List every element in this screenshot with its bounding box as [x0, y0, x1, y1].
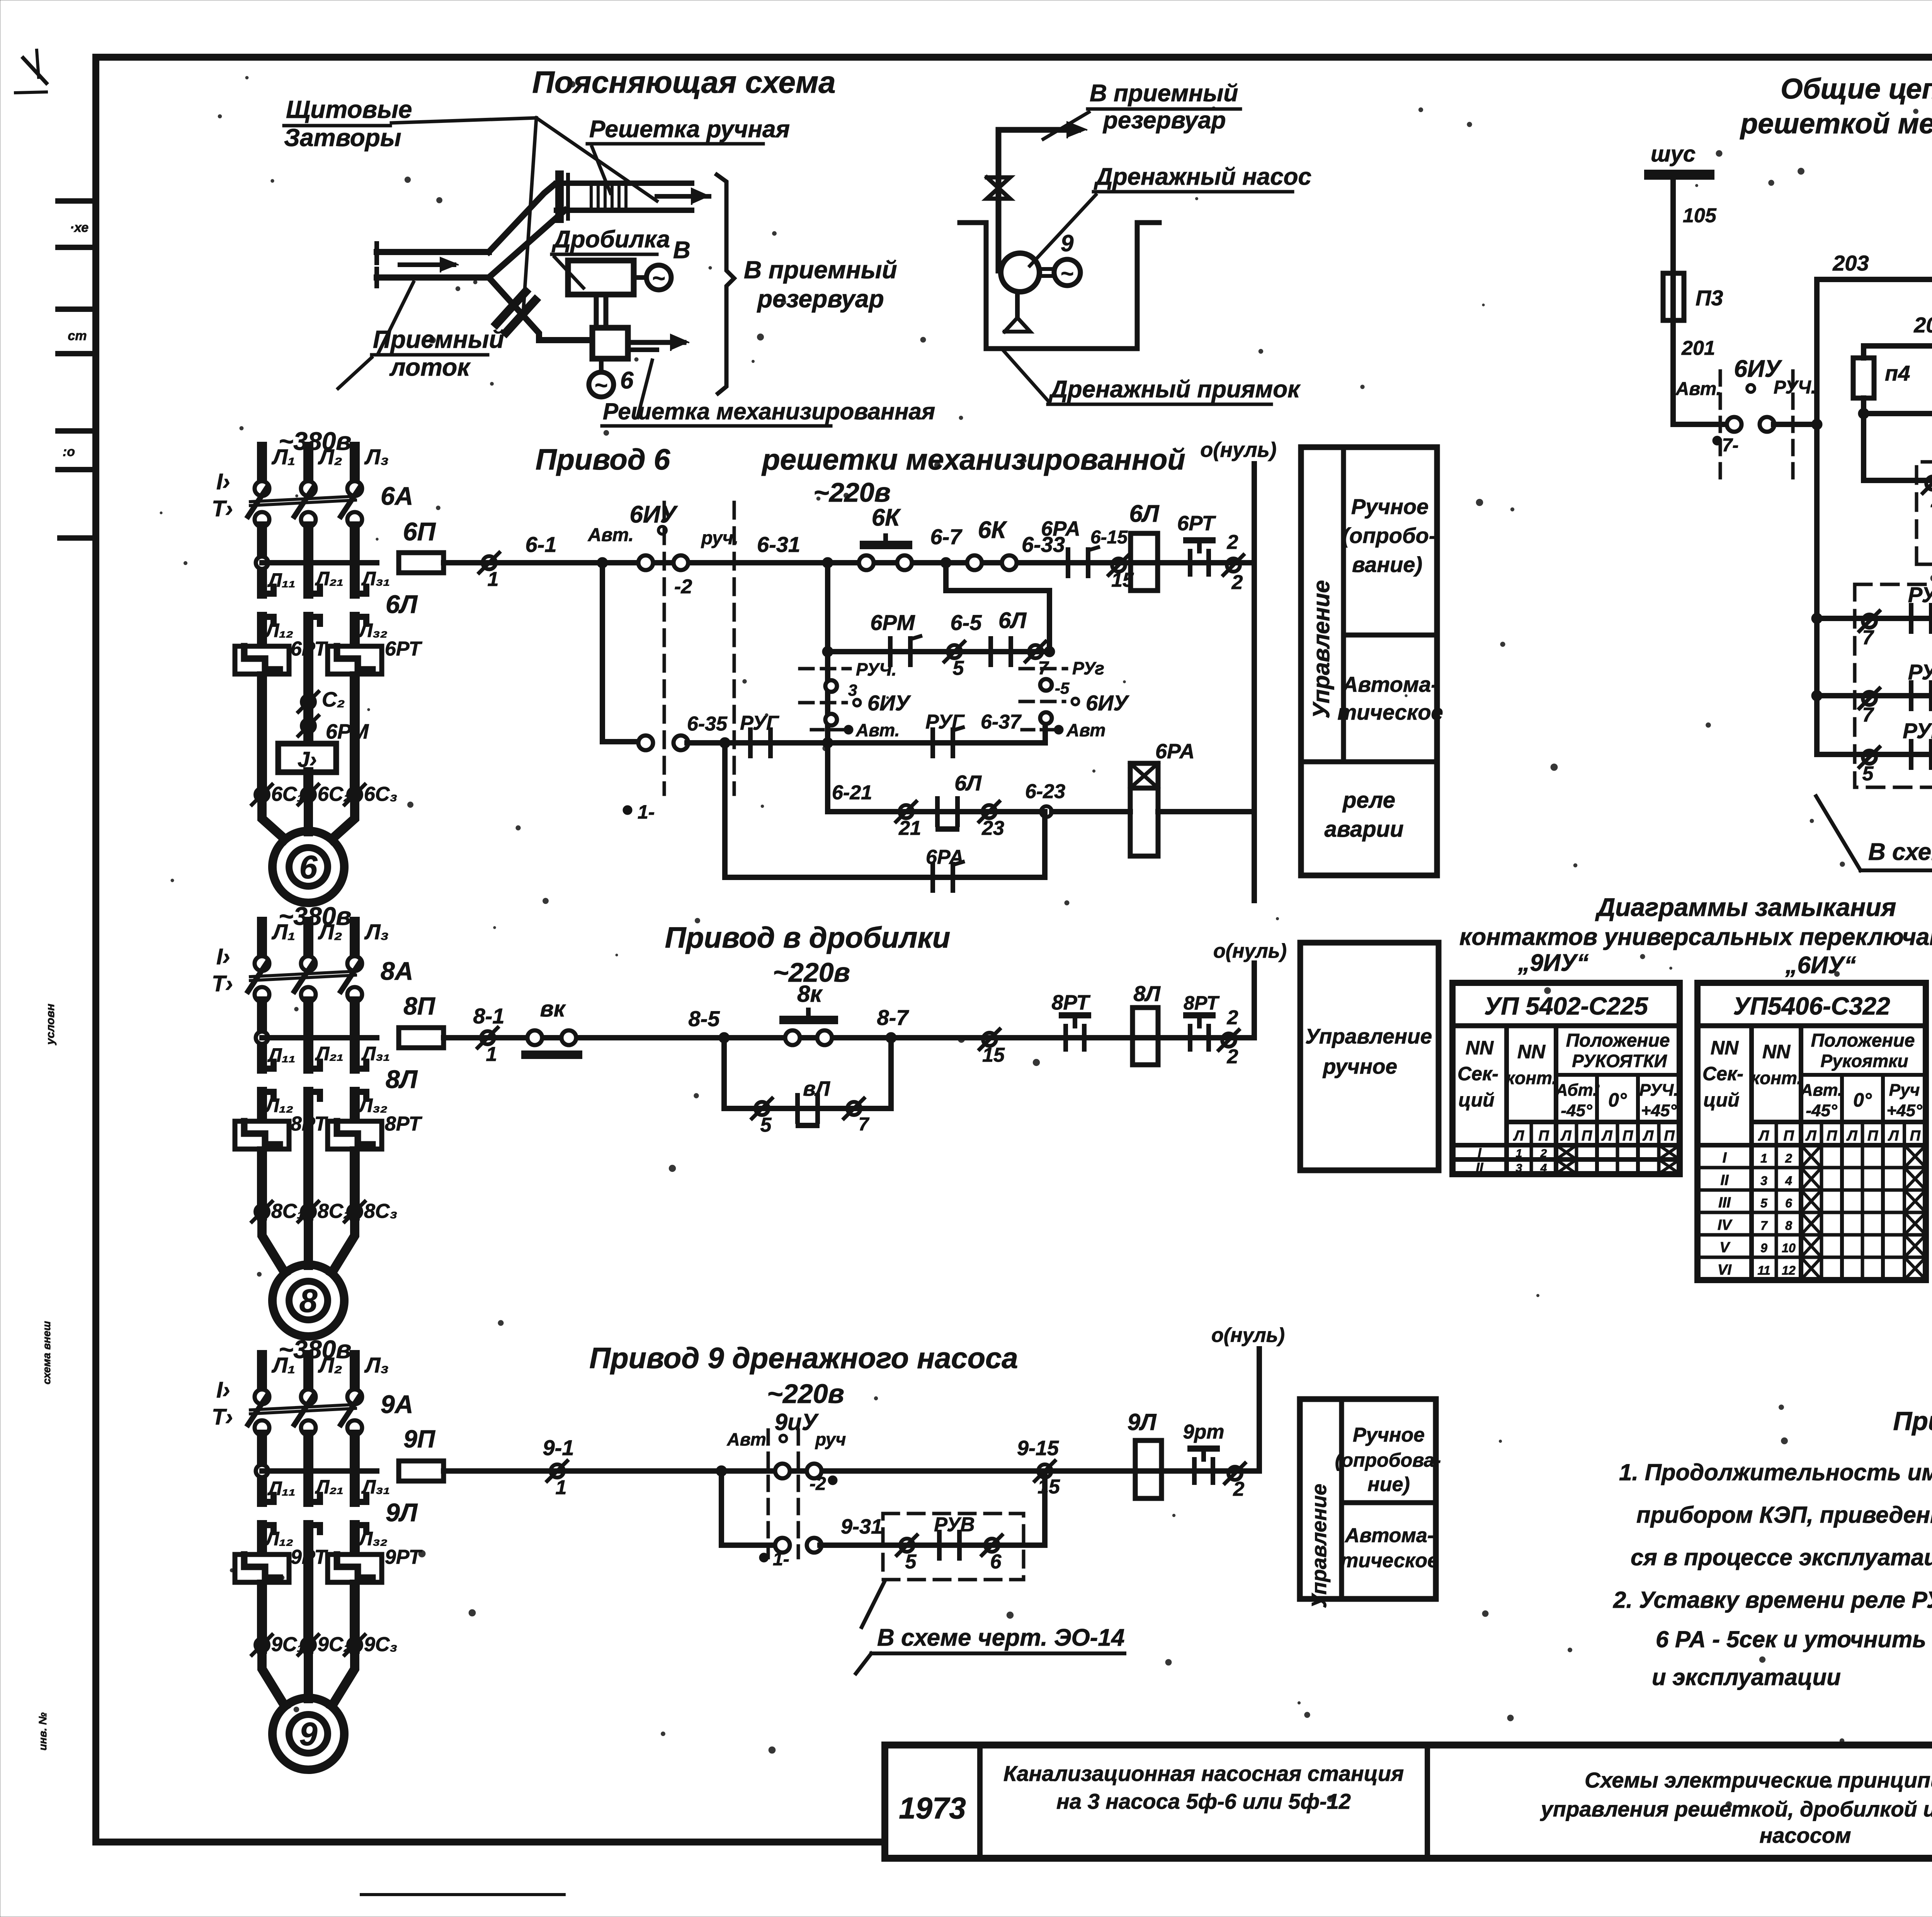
svg-text:вЛ: вЛ [803, 1077, 831, 1100]
contact 6РТ on line 6 [1188, 551, 1192, 574]
svg-text:~: ~ [1061, 261, 1074, 286]
svg-text:6-23: 6-23 [1025, 780, 1065, 803]
svg-text:205: 205 [1913, 313, 1932, 337]
contact 8РТ second [1188, 1026, 1192, 1049]
svg-text:тическое: тическое [1340, 1549, 1439, 1572]
thermal elements 6РТ [235, 646, 289, 674]
wire mark 2 [1227, 558, 1240, 572]
svg-text:6-35: 6-35 [687, 713, 728, 735]
breaker 6А [255, 481, 269, 496]
svg-text:П: П [1582, 1128, 1592, 1144]
Л/П letters row 5406 [1775, 1122, 1778, 1280]
svg-text:9С₃: 9С₃ [364, 1633, 398, 1656]
svg-text:8-7: 8-7 [877, 1005, 910, 1030]
svg-text:6-7: 6-7 [930, 524, 963, 549]
pipe to mech rack [514, 305, 591, 340]
svg-text:Л₁₂: Л₁₂ [265, 1528, 293, 1549]
svg-text:9: 9 [1760, 1241, 1767, 1255]
svg-text:Управление: Управление [1305, 1024, 1432, 1048]
svg-text:управления решеткой, дробилкой: управления решеткой, дробилкой и дренажн… [1540, 1797, 1932, 1821]
РУ relays dashed box [1855, 584, 1932, 787]
svg-text:Л: Л [1642, 1128, 1654, 1144]
svg-text:-2: -2 [810, 1474, 826, 1494]
wire mark 23 [983, 805, 996, 818]
auto branch 9 [721, 1471, 777, 1545]
svg-text:1: 1 [1760, 1151, 1767, 1165]
svg-text:6С₃: 6С₃ [364, 783, 398, 805]
svg-text:6-15: 6-15 [1090, 527, 1128, 548]
svg-text:о(нуль): о(нуль) [1211, 1324, 1285, 1347]
null bus feeder 9 [1257, 1349, 1262, 1471]
svg-text:7: 7 [859, 1114, 870, 1135]
node x1876 [719, 737, 730, 748]
contact 6РА on line 6 [1066, 550, 1070, 576]
Л/П letters row [1530, 1122, 1533, 1174]
svg-text:NN: NN [1517, 1041, 1546, 1062]
svg-text:9рт: 9рт [1183, 1421, 1225, 1443]
mode box feeder 9 [1300, 1399, 1436, 1599]
svg-text:Л₁: Л₁ [271, 1353, 295, 1377]
svg-text:1973: 1973 [899, 1791, 966, 1825]
svg-text:аварии: аварии [1324, 817, 1403, 842]
relay РУВ dashed box [883, 1514, 1024, 1580]
svg-text:105: 105 [1683, 204, 1717, 227]
wire mark 21 [900, 805, 913, 818]
contact РУГ row B [748, 730, 753, 756]
pump discharge pipe [998, 130, 1078, 271]
svg-text:I: I [1723, 1150, 1727, 1166]
wire mark 5 [948, 645, 961, 658]
table УП5406-С322 [1697, 983, 1926, 1280]
fuse ПЗ [1663, 273, 1684, 320]
svg-text:П3: П3 [1696, 286, 1723, 310]
svg-text:П: П [1867, 1128, 1878, 1144]
svg-text:I: I [1478, 1146, 1482, 1160]
svg-text:9-1: 9-1 [543, 1435, 574, 1460]
mode box feeder 6 [1301, 447, 1437, 875]
svg-text:8РТ: 8РТ [1052, 991, 1091, 1014]
wire mark 2 line 9 [1228, 1467, 1242, 1480]
svg-text:Поясняющая схема: Поясняющая схема [532, 65, 835, 99]
crusher box [568, 260, 634, 295]
svg-text:Схемы электрические принципи: Схемы электрические принципиальные [1585, 1768, 1932, 1792]
svg-text:РУКОЯТКИ: РУКОЯТКИ [1572, 1051, 1667, 1071]
svg-text:3: 3 [848, 681, 857, 699]
svg-text:П: П [1538, 1128, 1549, 1144]
svg-text:РУГ: РУГ [925, 711, 965, 733]
svg-text:Решетка ручная: Решетка ручная [589, 116, 790, 143]
svg-text:прибором КЭП, приведенная в: прибором КЭП, приведенная в диаграмме, у… [1636, 1502, 1932, 1528]
stator terminals 8С1 8С2 8С3 [255, 1205, 269, 1218]
svg-text:6К: 6К [978, 517, 1007, 543]
row 6РМ 6-5 6Л [828, 649, 1049, 654]
svg-text:15: 15 [1037, 1476, 1060, 1498]
svg-text:8П: 8П [403, 992, 436, 1020]
svg-text:Общие цепи управления: Общие цепи управления [1781, 73, 1932, 105]
selector 6ИУ contacts on line 6 [638, 555, 653, 570]
svg-text:Авт: Авт [1066, 720, 1105, 740]
svg-text:V: V [1719, 1239, 1730, 1256]
svg-text:П: П [1910, 1128, 1921, 1144]
КЭП dashed box [1917, 462, 1932, 564]
svg-text:Авт.: Авт. [727, 1429, 771, 1449]
secondary line 205/207 [1864, 343, 1932, 349]
svg-text:П: П [1827, 1128, 1837, 1144]
svg-text:Управление: Управление [1308, 580, 1334, 718]
svg-text:РУЧ.: РУЧ. [1639, 1081, 1679, 1100]
breaker 8А [255, 956, 269, 971]
svg-text:В схеме черт. ЭО-14: В схеме черт. ЭО-14 [877, 1624, 1124, 1651]
pump motor 9 [1039, 267, 1055, 271]
coil 9Л [1135, 1440, 1162, 1498]
contact 6Л row C [935, 798, 940, 825]
svg-text:-45°: -45° [1806, 1101, 1837, 1120]
svg-text:2: 2 [1931, 489, 1932, 512]
svg-text:Управление: Управление [1308, 1484, 1331, 1608]
button 6К (start, self hold bracket) [967, 555, 982, 570]
node 8-7 [886, 1032, 896, 1043]
svg-text:резервуар: резервуар [1102, 107, 1226, 134]
svg-text:10: 10 [1782, 1241, 1796, 1255]
svg-text:8: 8 [1785, 1219, 1792, 1233]
svg-text:8РТ: 8РТ [1184, 992, 1220, 1014]
svg-text:5: 5 [905, 1551, 917, 1573]
svg-text:Абт.: Абт. [1555, 1081, 1598, 1100]
stator terminals 6С1 6С2 6С3 [255, 788, 269, 801]
svg-text:6-5: 6-5 [951, 610, 982, 635]
svg-text:·хе: ·хе [70, 220, 88, 235]
wire row C to coil [1052, 809, 1130, 814]
svg-text:III: III [1718, 1195, 1731, 1211]
svg-text:8Л: 8Л [386, 1065, 418, 1093]
svg-text:8РТ: 8РТ [385, 1113, 423, 1135]
node on line 6 [597, 557, 608, 568]
drain pit outline [960, 223, 1159, 349]
breaker 9А [255, 1389, 269, 1404]
svg-text:УП5406-С322: УП5406-С322 [1733, 992, 1890, 1020]
svg-text:2: 2 [1233, 1478, 1245, 1500]
svg-text:РУЧ.: РУЧ. [856, 659, 896, 679]
svg-text:шус: шус [1651, 141, 1696, 167]
svg-text:Щитовые: Щитовые [286, 95, 412, 123]
svg-text:Л₁: Л₁ [271, 919, 295, 944]
relay 6РМ (J>) [278, 744, 336, 772]
slanted pipe up to manual rack [489, 185, 554, 252]
svg-text:ст: ст [68, 329, 87, 343]
border frame [96, 54, 1932, 61]
label 1- near selector [623, 805, 632, 815]
contactor contacts 6Л [260, 591, 274, 597]
phase wires below breaker feeder 9 [257, 1435, 267, 1502]
contactor contacts 8Л [260, 1066, 274, 1072]
svg-text:1: 1 [488, 568, 499, 591]
svg-text:8А: 8А [381, 957, 413, 985]
wire mark 15 line 8 [983, 1033, 996, 1046]
coil 8Л [1133, 1008, 1158, 1065]
svg-text:6РА: 6РА [1041, 517, 1080, 540]
phase wires L1 L2 L3 feeder 8 [257, 922, 267, 957]
svg-text:ций: ций [1703, 1089, 1739, 1111]
svg-text:8С₃: 8С₃ [364, 1200, 398, 1222]
button 8К start [785, 1030, 800, 1045]
selector aux contacts middle (РУЧ/6ИУ/Авт left) [800, 667, 850, 671]
svg-text:9РТ: 9РТ [385, 1546, 423, 1568]
svg-text:6ИУ: 6ИУ [629, 501, 678, 528]
phase wires L1 L2 L3 feeder 6 [257, 447, 267, 482]
svg-text:Л: Л [1513, 1128, 1524, 1144]
svg-text:6: 6 [990, 1551, 1002, 1573]
left margin binding marks [58, 198, 96, 204]
phase wires L1 L2 L3 feeder 9 [257, 1355, 267, 1391]
svg-text:6-1: 6-1 [526, 532, 557, 557]
svg-text:6РТ: 6РТ [1177, 512, 1216, 535]
svg-text:NN: NN [1762, 1041, 1791, 1062]
svg-text:Авт.: Авт. [588, 525, 634, 545]
svg-text:П: П [1622, 1128, 1633, 1144]
svg-text:на 3 насоса 5ф-6 или 5ф-12: на 3 насоса 5ф-6 или 5ф-12 [1056, 1789, 1351, 1813]
leads into motor 8 [262, 1219, 285, 1273]
svg-text:4: 4 [1540, 1162, 1547, 1175]
svg-text:6РА: 6РА [1155, 740, 1195, 763]
svg-text:6: 6 [1785, 1196, 1792, 1210]
line 209 to РКН4 [1864, 411, 1932, 416]
svg-text:и эксплуатации: и эксплуатации [1652, 1664, 1841, 1690]
svg-text:~220в: ~220в [767, 1379, 844, 1409]
svg-text:7: 7 [1760, 1219, 1768, 1233]
svg-text:6П: 6П [403, 517, 436, 546]
fuse 8П [399, 1028, 444, 1048]
svg-text:Руч: Руч [1889, 1081, 1920, 1100]
svg-text:VI: VI [1718, 1262, 1732, 1278]
svg-text:6К: 6К [872, 504, 901, 531]
svg-text:ся в процессе эксплуатации.: ся в процессе эксплуатации. [1631, 1544, 1932, 1570]
svg-text:Л: Л [1888, 1128, 1899, 1144]
svg-text:+45°: +45° [1641, 1101, 1677, 1120]
svg-text:Положение: Положение [1566, 1030, 1670, 1051]
X marks [1556, 1145, 1577, 1159]
svg-text:решетки механизированной: решетки механизированной [761, 443, 1185, 476]
svg-text:схема внеш: схема внеш [41, 1321, 53, 1384]
svg-text:IV: IV [1718, 1217, 1733, 1233]
stator terminals 9С1 9С2 9С3 [255, 1638, 269, 1651]
svg-text:Авт.: Авт. [855, 720, 900, 740]
svg-text:Автома-: Автома- [1344, 1524, 1434, 1547]
wire coil 6РА to bus [1158, 809, 1254, 814]
leader lines to gates [391, 118, 536, 123]
gate mark on manual channel [555, 175, 564, 219]
table УП5402-С225 [1452, 983, 1680, 1174]
svg-text:NN: NN [1711, 1037, 1739, 1059]
svg-text:Затворы: Затворы [284, 124, 401, 152]
svg-text:Ручное: Ручное [1351, 494, 1429, 519]
svg-text:(опробо-: (опробо- [1342, 523, 1436, 548]
svg-text:9П: 9П [403, 1425, 436, 1453]
svg-text:6РА: 6РА [926, 846, 964, 868]
svg-text:П: П [1783, 1128, 1794, 1144]
svg-text:2: 2 [1227, 531, 1238, 553]
svg-text:12: 12 [1782, 1263, 1796, 1277]
svg-text:~220в: ~220в [813, 477, 891, 507]
stray mark under bottom border [361, 1893, 564, 1896]
valve [987, 177, 1010, 199]
phase wires below breaker feeder 8 [257, 1001, 267, 1069]
svg-text:0°: 0° [1608, 1089, 1627, 1111]
svg-text:9: 9 [1061, 230, 1074, 256]
svg-text:Л: Л [1601, 1128, 1612, 1144]
svg-text:8-5: 8-5 [689, 1006, 720, 1031]
motor 8 [272, 1265, 344, 1336]
svg-text:6: 6 [299, 849, 318, 885]
svg-text:резервуар: резервуар [757, 285, 884, 313]
wire mark 2 line 8 [1222, 1033, 1235, 1047]
svg-text:I›: I› [216, 944, 230, 969]
wire mark 9-1 [551, 1464, 564, 1478]
svg-text:РУ2: РУ2 [1908, 660, 1932, 684]
svg-text:6Л: 6Л [386, 590, 418, 618]
svg-text:9-15: 9-15 [1017, 1437, 1059, 1460]
svg-text:Л₃₂: Л₃₂ [358, 1095, 388, 1116]
svg-text:Примечания:: Примечания: [1893, 1406, 1932, 1436]
svg-text:руч.: руч. [701, 528, 738, 548]
corner scribbles [23, 58, 46, 83]
svg-text:Привод 9 дренажного насоса: Привод 9 дренажного насоса [589, 1342, 1018, 1375]
svg-text:6Л: 6Л [1129, 501, 1159, 527]
crusher down pipe [594, 295, 599, 328]
svg-text:РУЧ.: РУЧ. [1774, 377, 1816, 398]
null bus feeder 8 [1252, 963, 1257, 1038]
svg-text:контактов универсальных пе: контактов универсальных переключателей [1459, 924, 1932, 950]
svg-text:9Л: 9Л [1128, 1409, 1157, 1435]
svg-text:Автома-: Автома- [1342, 672, 1438, 696]
svg-text:1: 1 [486, 1043, 497, 1066]
svg-text:РУГ: РУГ [740, 712, 779, 734]
svg-text:Л: Л [1805, 1128, 1816, 1144]
svg-text:II: II [1720, 1172, 1729, 1188]
svg-text:Л: Л [1846, 1128, 1857, 1144]
node 209 [1858, 408, 1869, 419]
inlet channel (приемный лоток) [377, 249, 489, 255]
contact 6РМ [888, 638, 893, 665]
svg-text:2: 2 [1227, 1045, 1238, 1068]
svg-text::о: :о [63, 444, 75, 459]
wire mark 1 on line 6 [483, 556, 496, 569]
svg-text:NN: NN [1466, 1037, 1494, 1059]
svg-text:Л₃: Л₃ [364, 444, 389, 469]
svg-text:9: 9 [299, 1716, 318, 1752]
svg-text:о(нуль): о(нуль) [1213, 940, 1287, 962]
rack hatch [590, 183, 593, 210]
svg-text:п4: п4 [1885, 361, 1910, 385]
svg-text:ций: ций [1458, 1089, 1494, 1111]
svg-text:реле: реле [1342, 788, 1395, 813]
svg-text:Авт.: Авт. [1675, 379, 1721, 399]
svg-text:I›: I› [216, 469, 230, 494]
wire: branch vertical x2142 [825, 563, 830, 812]
svg-text:Дробилка: Дробилка [551, 226, 670, 253]
svg-text:I›: I› [216, 1377, 230, 1403]
svg-text:6Л: 6Л [954, 771, 982, 795]
svg-text:Сек-: Сек- [1702, 1063, 1743, 1084]
svg-text:2: 2 [1540, 1147, 1547, 1160]
svg-text:Л₃: Л₃ [364, 919, 389, 944]
svg-text:конт.: конт. [1751, 1068, 1802, 1088]
left secondary vertical + fuse П4 [1861, 346, 1866, 358]
svg-text:2: 2 [1227, 1006, 1238, 1029]
svg-text:„6ИУ“: „6ИУ“ [1785, 952, 1856, 979]
svg-text:6Л: 6Л [998, 608, 1027, 633]
thermal elements 8РТ [235, 1121, 289, 1149]
svg-text:-2: -2 [674, 575, 692, 598]
svg-text:9А: 9А [381, 1390, 413, 1418]
svg-text:Т›: Т› [212, 496, 233, 521]
svg-text:Л₁₂: Л₁₂ [265, 620, 293, 641]
svg-text:201: 201 [1681, 337, 1715, 359]
fuse 6П [399, 553, 444, 573]
svg-text:Привод 6: Привод 6 [536, 443, 670, 476]
selector 9ИУ [767, 1430, 770, 1558]
svg-text:1: 1 [556, 1476, 567, 1499]
row РУЮ [1817, 752, 1932, 757]
thermal elements 9РТ [235, 1554, 289, 1582]
drainage pump circle [1001, 253, 1039, 292]
wire: link 6-1 junction down to row 6-35 [602, 563, 638, 742]
node branch 9 [716, 1466, 727, 1476]
selector aux contacts middle (РУг/6ИУ/Авт right) [1020, 667, 1066, 671]
svg-text:1. Продолжительность импульсо: 1. Продолжительность импульсов и пауз, з… [1619, 1459, 1932, 1485]
svg-text:3: 3 [1516, 1162, 1522, 1175]
contact 6Л row A [988, 638, 993, 665]
svg-text:вание): вание) [1352, 552, 1422, 577]
svg-text:В приемный: В приемный [744, 256, 897, 284]
svg-text:8-1: 8-1 [473, 1004, 505, 1028]
coil 6РА [1130, 763, 1158, 788]
wire: control line 8 [262, 1035, 377, 1040]
primary line 203 to TP [1817, 277, 1932, 282]
wire: vertical to right aux circle [1043, 725, 1048, 743]
svg-text:-45°: -45° [1561, 1101, 1592, 1120]
node 8-5 [719, 1032, 730, 1043]
contact 6РА bottom [930, 864, 935, 890]
svg-text:Положение: Положение [1811, 1030, 1915, 1051]
svg-text:~: ~ [652, 266, 665, 291]
svg-text:вк: вк [540, 996, 566, 1021]
svg-text:Приемный: Приемный [373, 325, 504, 353]
row РУ2 / КЭП2 [1811, 690, 1822, 701]
contact 8РТ [1063, 1026, 1068, 1049]
svg-text:РУ1: РУ1 [1908, 582, 1932, 607]
row 6-21 6Л 6-23 [828, 809, 1046, 814]
leads into motor 9 [262, 1653, 285, 1706]
svg-text:6 РА - 5сек и уточнить в пр: 6 РА - 5сек и уточнить в процессе наладк… [1656, 1626, 1932, 1652]
svg-text:+45°: +45° [1886, 1101, 1922, 1120]
svg-text:Л₂: Л₂ [318, 919, 342, 944]
svg-text:лоток: лоток [389, 353, 471, 381]
wire mark 15 [1112, 558, 1125, 572]
brace to receiving tank [717, 175, 734, 393]
button 8К closed [527, 1030, 542, 1045]
svg-text:Л₁₂: Л₁₂ [265, 1095, 293, 1116]
svg-text:Ручное: Ручное [1353, 1424, 1425, 1446]
svg-text:Л₃₂: Л₃₂ [358, 620, 388, 641]
node 6-23 [1041, 806, 1052, 817]
node x2142 row B [822, 737, 833, 748]
svg-text:Л: Л [1758, 1128, 1769, 1144]
title block frame [885, 1745, 1932, 1858]
svg-text:6РМ: 6РМ [870, 610, 915, 635]
paper specks [920, 337, 926, 342]
contact 9РТ [1192, 1459, 1197, 1483]
svg-text:Канализационная насосная ста: Канализационная насосная станция [1003, 1761, 1404, 1786]
